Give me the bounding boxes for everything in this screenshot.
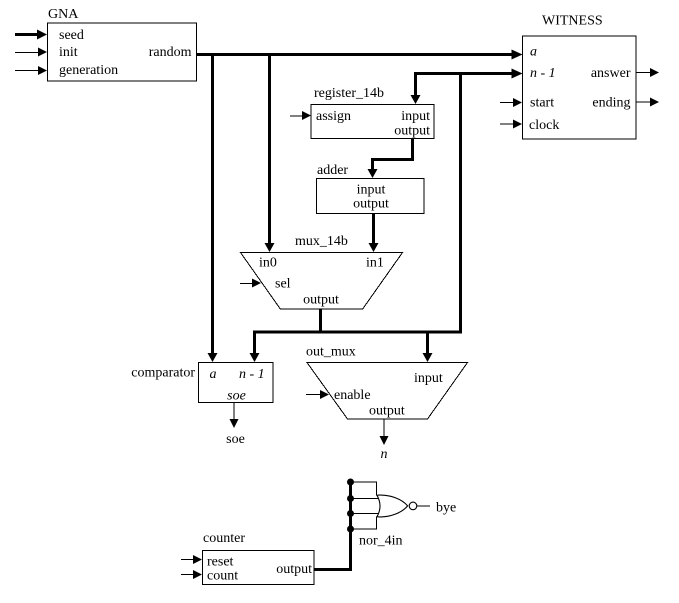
gate nor_4in	[359, 495, 408, 548]
wire drop to comparator a	[208, 53, 218, 362]
block register_14b	[311, 86, 434, 139]
svg-text:out_mux: out_mux	[306, 345, 356, 360]
svg-text:GNA: GNA	[48, 7, 79, 22]
block comparator	[131, 363, 273, 404]
block mux_14b (trapezoid)	[241, 234, 403, 309]
block GNA	[48, 7, 197, 81]
svg-text:count: count	[207, 569, 238, 584]
svg-text:bye: bye	[436, 501, 456, 516]
svg-text:assign: assign	[316, 109, 351, 124]
svg-text:a: a	[210, 367, 217, 382]
block out_mux (trapezoid)	[306, 345, 468, 420]
wire random bus to WITNESS a	[197, 50, 523, 60]
svg-text:output: output	[303, 293, 339, 308]
svg-text:clock: clock	[529, 118, 559, 133]
wire adder output to mux in1	[369, 213, 379, 252]
svg-text:input: input	[357, 183, 386, 198]
node junction dot 2	[347, 495, 354, 502]
svg-text:answer: answer	[591, 66, 631, 81]
wire out_mux output arrow n	[380, 419, 389, 462]
wire drop to mux in0	[265, 53, 275, 252]
wire reset input arrow	[181, 555, 202, 564]
svg-text:sel: sel	[275, 277, 291, 292]
block adder	[317, 163, 425, 214]
svg-text:reset: reset	[207, 555, 234, 570]
svg-text:input: input	[414, 371, 443, 386]
wire nor input 2	[351, 498, 381, 500]
gate output bubble	[409, 502, 417, 510]
wire feedback vertical (bus3 up to n-1 bus)	[459, 72, 462, 334]
wire ending output arrow	[636, 98, 659, 107]
svg-text:register_14b: register_14b	[314, 86, 384, 101]
svg-text:mux_14b: mux_14b	[295, 234, 348, 249]
wire bus3 horizontal	[250, 331, 463, 363]
wire clock input arrow	[500, 120, 522, 129]
wire count input arrow	[181, 570, 202, 579]
wire bye output	[417, 501, 456, 516]
svg-text:generation: generation	[59, 63, 118, 78]
svg-text:output: output	[369, 404, 405, 419]
wire enable input arrow	[306, 390, 329, 399]
svg-text:nor_4in: nor_4in	[359, 534, 403, 549]
wire mux output to bus3	[319, 309, 322, 333]
svg-text:soe: soe	[226, 432, 245, 447]
svg-text:ending: ending	[592, 96, 630, 111]
svg-text:output: output	[394, 124, 430, 139]
svg-text:counter: counter	[203, 531, 245, 546]
wire sel input arrow	[240, 279, 261, 288]
svg-text:input: input	[401, 109, 430, 124]
wire nor input 4	[351, 517, 377, 530]
svg-text:init: init	[59, 45, 78, 60]
svg-text:in1: in1	[366, 256, 384, 271]
block WITNESS	[523, 14, 637, 140]
wire seed input arrow	[15, 30, 47, 40]
svg-text:start: start	[530, 96, 554, 111]
svg-text:output: output	[353, 197, 389, 212]
node junction dot 4	[347, 526, 354, 533]
svg-text:a: a	[530, 45, 537, 60]
svg-text:WITNESS: WITNESS	[542, 14, 603, 29]
wire nor input 1	[351, 482, 377, 496]
svg-text:n: n	[381, 447, 388, 462]
wire answer output arrow	[636, 68, 659, 77]
svg-text:comparator: comparator	[131, 366, 195, 381]
svg-text:random: random	[149, 45, 192, 60]
wire n-1 bus into WITNESS	[414, 69, 523, 79]
svg-text:in0: in0	[259, 256, 277, 271]
node junction dot 3	[347, 510, 354, 517]
wire drop to out_mux input	[423, 332, 433, 362]
node junction dot 1	[347, 479, 354, 486]
svg-text:enable: enable	[334, 388, 371, 403]
wire assign input arrow	[290, 111, 311, 120]
svg-text:seed: seed	[59, 28, 84, 43]
svg-text:output: output	[276, 562, 312, 577]
wire init input arrow	[15, 48, 47, 57]
wire nor input 3	[351, 513, 381, 515]
wire drop to register input	[411, 72, 421, 104]
block counter	[203, 531, 315, 585]
svg-text:n - 1: n - 1	[239, 367, 265, 382]
wire counter output to nor bus	[314, 481, 352, 571]
svg-text:soe: soe	[227, 389, 246, 404]
svg-text:n - 1: n - 1	[530, 66, 556, 81]
wire start input arrow	[500, 98, 522, 107]
wire register output to adder input	[368, 139, 413, 179]
wire generation input arrow	[15, 66, 47, 75]
svg-text:adder: adder	[317, 163, 348, 178]
wire soe output arrow	[226, 402, 245, 447]
